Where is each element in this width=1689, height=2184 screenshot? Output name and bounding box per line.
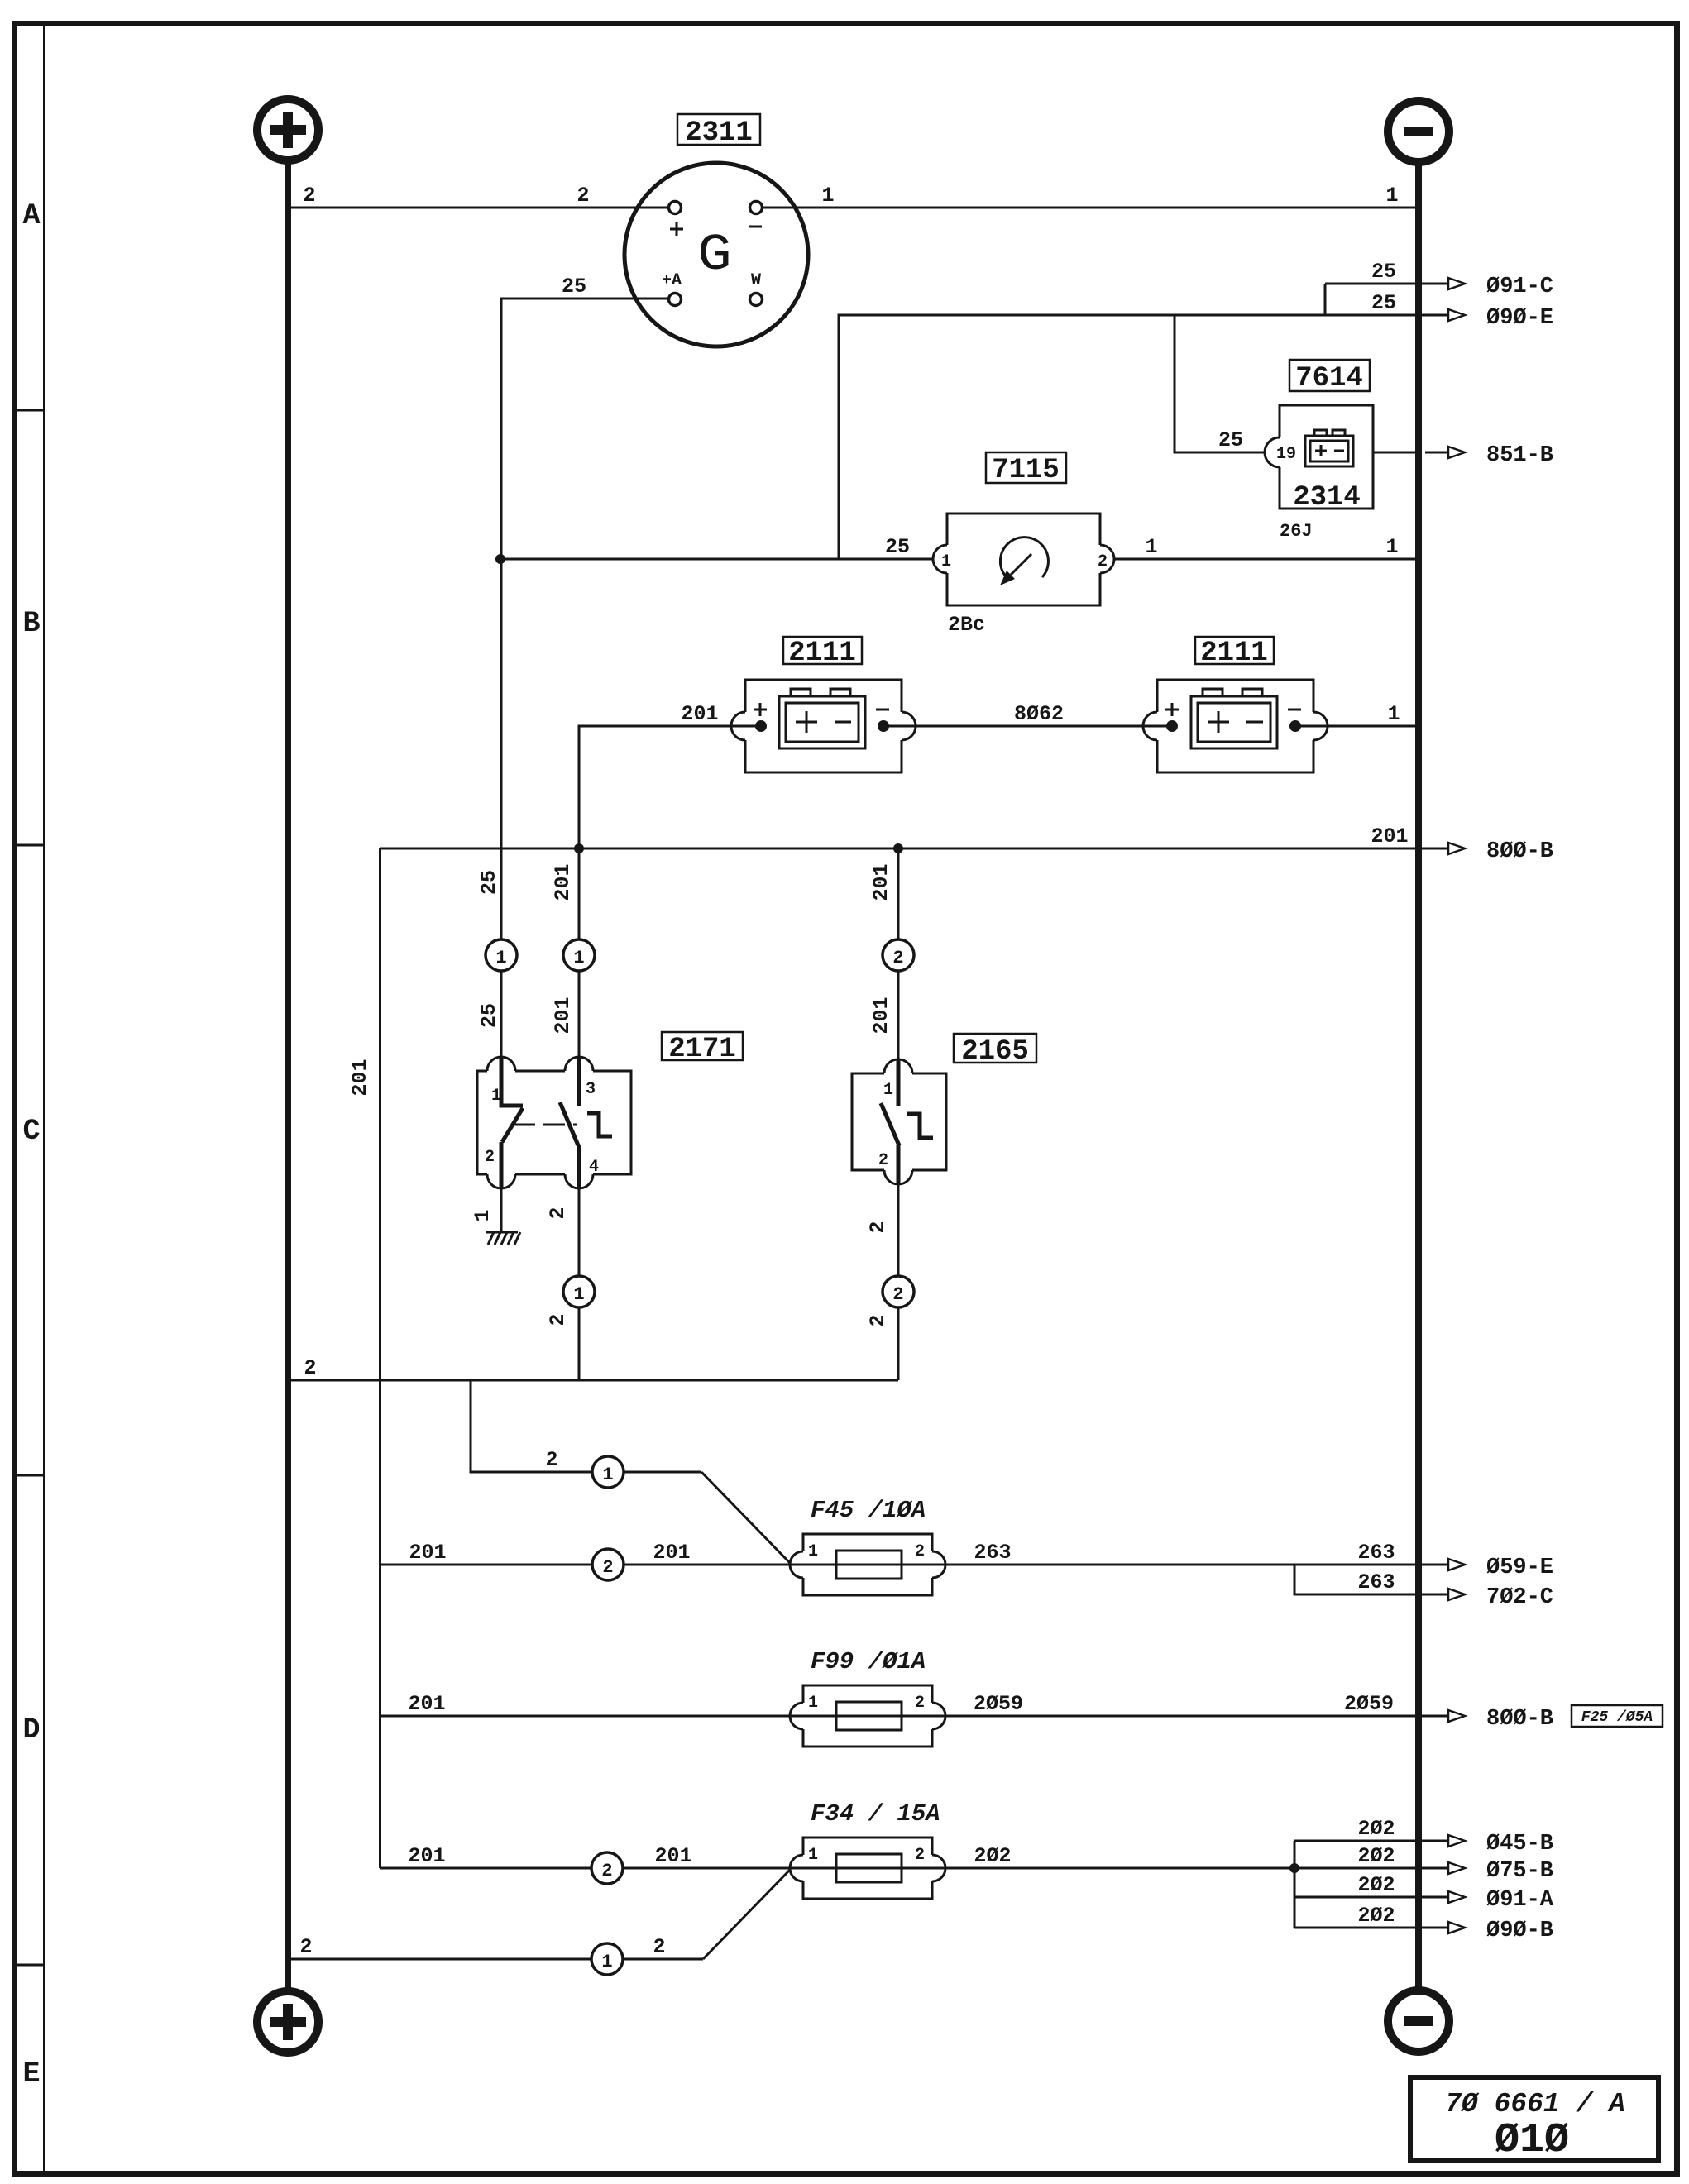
svg-text:201: 201 [653, 1541, 690, 1565]
svg-text:2111: 2111 [788, 638, 856, 669]
svg-text:W: W [751, 271, 761, 290]
svg-text:2111: 2111 [1200, 638, 1268, 669]
pin 1 stub [897, 1060, 901, 1106]
svg-text:2Ø59: 2Ø59 [1344, 1692, 1394, 1716]
svg-text:1: 1 [573, 948, 584, 968]
svg-text:4: 4 [589, 1158, 599, 1177]
latch hook [587, 1113, 612, 1136]
svg-text:E: E [22, 2057, 40, 2091]
fuse F99 [786, 1685, 950, 1747]
svg-text:1: 1 [495, 948, 506, 968]
wire 2 (B+ to generator +) [291, 184, 668, 208]
diagonal wire to fuse F34 [703, 1870, 790, 1959]
battery 2111 right label [1195, 637, 1274, 669]
rowB [500, 360, 1553, 1059]
battery unit 7614 / 2314 [1265, 405, 1373, 542]
svg-text:19: 19 [1276, 445, 1296, 464]
svg-text:2: 2 [546, 1313, 570, 1326]
2111L terminal + [731, 712, 745, 740]
wire 1 from 7115 pin 2 to B- [1114, 535, 1415, 559]
svg-text:Ø75-B: Ø75-B [1486, 1859, 1553, 1884]
svg-text:201: 201 [654, 1844, 691, 1868]
branch to 702-C [1294, 1565, 1448, 1594]
svg-text:1: 1 [1385, 535, 1398, 559]
svg-text:2: 2 [577, 184, 589, 208]
right blade [560, 1102, 578, 1145]
svg-text:2Ø59: 2Ø59 [974, 1692, 1023, 1716]
wire 25 labels on switch feed [477, 870, 501, 1028]
arrow 091-A [1448, 1888, 1554, 1913]
svg-text:2: 2 [866, 1221, 890, 1233]
connector 2 on wire 201 [883, 939, 914, 971]
svg-text:G: G [697, 226, 732, 284]
switch 2165 [852, 1059, 946, 1184]
wire 25 branch to 7614 [1175, 315, 1266, 452]
wire 25 branch to 090-E / 091-C [839, 260, 1448, 559]
wire 25 from +A [501, 275, 668, 1059]
7614 pin 19 [1265, 437, 1280, 467]
2111R terminal - [1313, 712, 1328, 740]
svg-text:8Ø62: 8Ø62 [1014, 702, 1064, 726]
F99 fuse element [836, 1702, 902, 1730]
svg-text:+A: +A [662, 271, 682, 290]
terminal W [750, 294, 763, 306]
titleblock [1410, 2077, 1658, 2164]
2111R terminal + [1143, 712, 1157, 740]
battery 2111 left [731, 680, 916, 772]
2111R battery icon [1191, 696, 1277, 748]
latch hook [907, 1114, 933, 1138]
wire 1 from 2111 right - to B- [1295, 702, 1415, 726]
svg-text:25: 25 [1371, 260, 1396, 284]
gauge 7115 label [986, 452, 1066, 486]
svg-text:201: 201 [408, 1844, 445, 1868]
left blade [502, 1108, 523, 1142]
switch 2165 label [954, 1034, 1036, 1068]
svg-text:8ØØ-B: 8ØØ-B [1486, 839, 1553, 864]
junction on wire 25 [495, 554, 505, 564]
svg-text:2: 2 [915, 1542, 925, 1561]
battery minus symbol bottom [1388, 1990, 1449, 2052]
fuse F45 [790, 1534, 945, 1595]
pin 2 stub [500, 1142, 504, 1188]
svg-text:2: 2 [866, 1314, 890, 1326]
svg-text:2: 2 [546, 1207, 570, 1219]
svg-text:25: 25 [885, 535, 910, 559]
diagonal wire to fuse F45 [701, 1472, 790, 1563]
svg-text:1: 1 [1387, 702, 1400, 726]
wire 2 from 2165 pin 2 [866, 1184, 898, 1380]
svg-text:3: 3 [586, 1080, 596, 1099]
battery minus symbol top [1388, 101, 1449, 162]
svg-text:2Bc: 2Bc [948, 613, 985, 637]
wire 7614 to B- and arrow 851-B [1373, 443, 1553, 468]
F34 fuse element [836, 1854, 902, 1882]
generator 2311 label [677, 114, 760, 149]
battery 2111 right [1143, 680, 1328, 772]
connector 1 on wire 201 [563, 939, 595, 971]
svg-text:201: 201 [1371, 824, 1408, 848]
svg-text:F99 /Ø1A: F99 /Ø1A [811, 1648, 926, 1675]
svg-text:1: 1 [821, 184, 834, 208]
connector 2 on F34 row [591, 1852, 623, 1884]
svg-text:1: 1 [602, 1465, 613, 1485]
gauge symbol [1000, 538, 1048, 577]
svg-text:A: A [22, 199, 40, 232]
connector 1 below 2171 [563, 1276, 595, 1307]
junction 202 branch [1289, 1863, 1299, 1873]
terminal + [669, 202, 682, 214]
svg-text:2: 2 [602, 1557, 613, 1578]
svg-text:1: 1 [883, 1081, 893, 1100]
svg-text:2165: 2165 [961, 1036, 1029, 1068]
connector 1 bottom [591, 1943, 623, 1975]
wire 1 (generator - to B-) [763, 184, 1415, 208]
battery 2111 left label [783, 637, 862, 669]
svg-text:B: B [22, 607, 40, 640]
wire 201 feeder down-left [348, 848, 380, 1868]
svg-text:2: 2 [485, 1148, 495, 1167]
svg-text:25: 25 [562, 275, 586, 299]
svg-text:263: 263 [1357, 1541, 1395, 1565]
202 branch wires [1294, 1817, 1448, 1928]
wire 201 / 263 through fuse F45 [380, 1541, 1449, 1565]
svg-text:Ø9Ø-B: Ø9Ø-B [1486, 1919, 1553, 1943]
svg-text:2: 2 [1098, 552, 1108, 571]
wire 1 to ground [471, 1188, 501, 1232]
battery positive bus B+ (left) [285, 162, 291, 1990]
junction 201/2165 [893, 843, 903, 853]
2111L terminal - [902, 712, 916, 740]
arrow 045-B [1448, 1832, 1553, 1857]
svg-text:851-B: 851-B [1486, 443, 1553, 468]
svg-text:201: 201 [409, 1541, 446, 1565]
terminal - [750, 202, 763, 214]
svg-text:1: 1 [601, 1952, 612, 1972]
svg-text:Ø91-C: Ø91-C [1486, 275, 1553, 299]
svg-text:2: 2 [304, 1356, 316, 1380]
svg-text:1: 1 [471, 1209, 495, 1221]
junction 201/2111 [574, 843, 584, 853]
wire 201 / 202 through fuse F34 [380, 1844, 1449, 1868]
svg-text:1: 1 [808, 1846, 818, 1865]
svg-text:25: 25 [477, 870, 501, 895]
svg-text:2: 2 [303, 184, 315, 208]
arrow 059-E [1448, 1556, 1553, 1580]
svg-text:201: 201 [551, 863, 575, 901]
svg-text:1: 1 [941, 552, 951, 571]
wire 25 to 7115 pin 1 [500, 535, 933, 559]
generator 2311 (alternator) [624, 163, 808, 346]
svg-text:2: 2 [653, 1935, 665, 1959]
7115 pin 2 [1100, 545, 1114, 573]
svg-text:2: 2 [545, 1448, 557, 1472]
svg-text:2: 2 [892, 948, 903, 968]
svg-text:201: 201 [551, 996, 575, 1034]
rowC [291, 824, 1553, 1868]
svg-text:263: 263 [1357, 1570, 1395, 1594]
wire 8062 between batteries [883, 702, 1172, 726]
svg-text:201: 201 [869, 863, 893, 901]
svg-text:2: 2 [601, 1861, 612, 1881]
2111L battery icon [779, 696, 865, 748]
svg-text:201: 201 [869, 996, 893, 1034]
connector 2 below 2165 [883, 1276, 914, 1307]
svg-text:2Ø2: 2Ø2 [1357, 1817, 1395, 1841]
svg-text:D: D [22, 1713, 40, 1747]
connector 1 on F45 feed [592, 1456, 624, 1488]
arrow 800-B with fuse ref [1448, 1705, 1663, 1732]
svg-text:2311: 2311 [685, 117, 753, 149]
battery plus symbol top [257, 99, 318, 160]
svg-text:1: 1 [1385, 184, 1398, 208]
svg-text:Ø59-E: Ø59-E [1486, 1556, 1553, 1580]
svg-text:1: 1 [1145, 535, 1157, 559]
battery plus symbol bottom [257, 1991, 318, 2053]
mechanical link [514, 1124, 577, 1126]
wire 201 to 800-B [380, 824, 1449, 848]
svg-text:1: 1 [808, 1542, 818, 1561]
svg-text:2171: 2171 [668, 1034, 736, 1065]
rowDE [291, 1380, 1663, 1975]
svg-text:2Ø2: 2Ø2 [1357, 1873, 1395, 1897]
wire 201 labels on 2171 feed [551, 863, 575, 1034]
wire 2 bottom from B+ [291, 1935, 703, 1959]
svg-text:2: 2 [878, 1151, 888, 1170]
svg-text:201: 201 [681, 702, 718, 726]
svg-text:Ø1Ø: Ø1Ø [1495, 2117, 1569, 2164]
svg-text:201: 201 [348, 1059, 372, 1096]
svg-text:2Ø2: 2Ø2 [974, 1844, 1011, 1868]
svg-text:8ØØ-B: 8ØØ-B [1486, 1707, 1553, 1732]
connector 2 on F45 row [592, 1549, 624, 1580]
arrow 702-C [1448, 1585, 1553, 1610]
buses [257, 99, 1449, 2053]
diode unit 7614 label [1289, 360, 1370, 394]
svg-text:263: 263 [974, 1541, 1011, 1565]
pin 3 stub [577, 1058, 581, 1106]
svg-text:2: 2 [915, 1846, 925, 1865]
blade [881, 1103, 899, 1145]
svg-text:2: 2 [892, 1284, 903, 1305]
wire 2 to connector 1 (F45 feed) [471, 1380, 701, 1472]
wire 2 from 2171 pin 4 [546, 1188, 579, 1380]
battery negative bus B- (right) [1415, 164, 1422, 1989]
pin 2 stub [897, 1145, 901, 1184]
svg-text:201: 201 [408, 1692, 445, 1716]
connector 1 on wire 25 [486, 939, 517, 971]
svg-text:1: 1 [808, 1694, 818, 1713]
wire 2 from B+ to switches [291, 1356, 898, 1380]
switch 2171 label [662, 1032, 743, 1065]
svg-text:F45 /1ØA: F45 /1ØA [811, 1497, 926, 1524]
wire 201 to 2165 [869, 848, 898, 1061]
rowA [291, 114, 1553, 1059]
svg-text:C: C [22, 1115, 40, 1148]
svg-text:F25 /Ø5A: F25 /Ø5A [1581, 1709, 1653, 1726]
svg-text:2Ø2: 2Ø2 [1357, 1904, 1395, 1928]
arrow 090-E [1448, 306, 1553, 331]
switch 2171 [477, 1057, 631, 1188]
svg-text:2: 2 [299, 1935, 312, 1959]
arrow 075-B [1448, 1859, 1553, 1884]
svg-text:Ø45-B: Ø45-B [1486, 1832, 1553, 1857]
svg-text:26J: 26J [1280, 521, 1313, 542]
F45 fuse element [836, 1551, 902, 1579]
wire 201 / 2059 through fuse F99 [380, 1692, 1449, 1716]
fuse F34 [790, 1838, 945, 1899]
battery icon [1305, 436, 1353, 466]
svg-text:7Ø 6661 / A: 7Ø 6661 / A [1445, 2089, 1625, 2119]
ground [486, 1232, 520, 1245]
arrow 090-B [1448, 1919, 1553, 1943]
arrow 800-B [1448, 839, 1553, 864]
7115 pin 1 [933, 545, 947, 573]
svg-text:Ø91-A: Ø91-A [1486, 1888, 1554, 1913]
svg-text:2: 2 [915, 1694, 925, 1713]
svg-text:25: 25 [477, 1003, 501, 1028]
svg-text:2Ø2: 2Ø2 [1357, 1844, 1395, 1868]
svg-text:2314: 2314 [1293, 482, 1361, 514]
pin 1 stub and contact [501, 1058, 523, 1106]
pin 4 stub [577, 1145, 581, 1188]
svg-text:F34 / 15A: F34 / 15A [811, 1800, 940, 1828]
svg-text:25: 25 [1371, 291, 1396, 315]
arrow 091-C [1448, 275, 1553, 299]
svg-text:Ø9Ø-E: Ø9Ø-E [1486, 306, 1553, 331]
svg-text:7614: 7614 [1295, 363, 1363, 394]
terminal +A [669, 294, 682, 306]
svg-text:25: 25 [1218, 428, 1243, 452]
svg-text:7Ø2-C: 7Ø2-C [1486, 1585, 1553, 1610]
svg-text:1: 1 [573, 1284, 584, 1305]
svg-text:7115: 7115 [992, 455, 1060, 486]
wire 201 from 2111 left + [579, 702, 761, 1059]
gauge 7115 (2Bc) [933, 514, 1114, 637]
